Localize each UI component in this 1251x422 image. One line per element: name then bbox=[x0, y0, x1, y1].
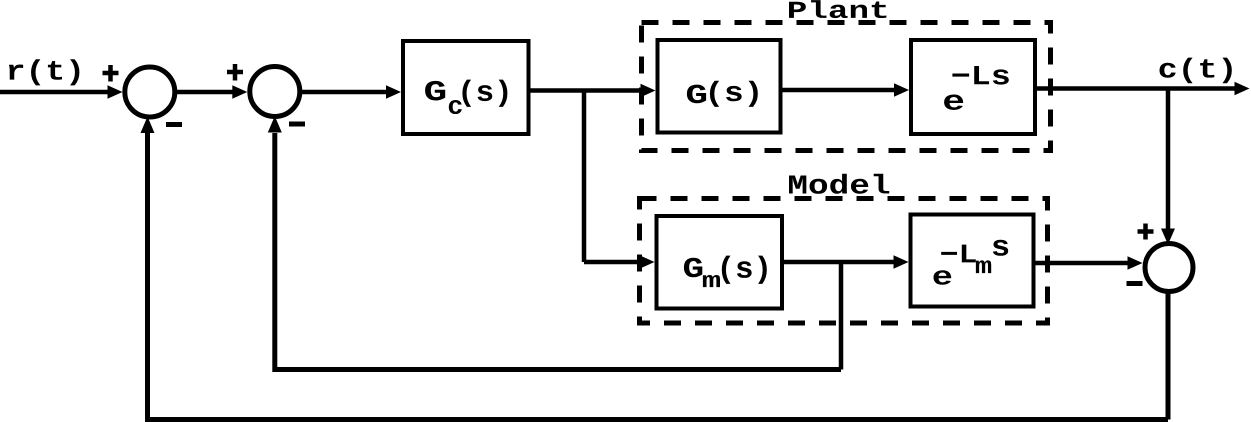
arrowhead into S1 bbox=[108, 85, 123, 99]
arrowhead into S3 from left bbox=[1128, 256, 1143, 270]
output label c(t) bbox=[1160, 58, 1232, 84]
plus sign at S3 bbox=[1138, 224, 1154, 240]
summing junction S3 bbox=[1145, 244, 1193, 292]
plus sign at S1 bbox=[103, 65, 119, 82]
minus sign at S1 bbox=[166, 122, 182, 127]
arrowhead into e-Ls bbox=[894, 83, 909, 97]
arrowhead into Gm bbox=[640, 255, 655, 269]
label e^-Lms exponent subscript m bbox=[976, 260, 991, 273]
arrowhead up into S1 from feedback bbox=[141, 117, 155, 134]
block Gc(s) bbox=[403, 41, 529, 134]
title Model bbox=[789, 174, 889, 194]
wire branch down from c(t) line to S3 bbox=[1166, 89, 1171, 229]
block e-Lms bbox=[911, 215, 1034, 307]
label e^-Lms exponent s bbox=[993, 240, 1008, 256]
dashed box Plant bbox=[642, 23, 1051, 151]
wire branch down from Gc output to model row bbox=[582, 91, 587, 263]
arrowhead into G(s) bbox=[641, 84, 656, 98]
minus sign at S2 bbox=[289, 122, 305, 127]
input label r(t) bbox=[9, 59, 80, 85]
wire input r(t) to S1 bbox=[0, 90, 110, 95]
arrowhead output at right edge bbox=[1235, 82, 1250, 96]
arrowhead into S2 bbox=[232, 85, 247, 99]
wire Gc to G(s) with branch node bbox=[531, 88, 643, 93]
label Gm(s) subscript m bbox=[703, 275, 720, 287]
wire S1 to S2 bbox=[177, 90, 234, 95]
wire branch to Gm bbox=[584, 260, 641, 265]
label e^-Lms exponent -L bbox=[941, 245, 976, 263]
label Gc(s) subscript c bbox=[449, 100, 462, 114]
label e^-Lms base e bbox=[934, 270, 952, 285]
label G(s) parens (s) bbox=[710, 81, 758, 107]
label e^-Ls base e bbox=[944, 95, 963, 110]
wire G(s) to e-Ls bbox=[783, 88, 897, 93]
label Gm(s) main G bbox=[684, 258, 702, 278]
minus sign at S3 bbox=[1127, 281, 1143, 286]
arrowhead up into S2 from feedback bbox=[268, 116, 282, 133]
summing junction S1 bbox=[125, 67, 175, 117]
label e^-Ls exponent -Ls bbox=[952, 66, 1008, 85]
label G(s) main G bbox=[687, 85, 706, 104]
label Gm(s) parens (s) bbox=[722, 256, 767, 284]
label Gc(s) parens (s) bbox=[462, 80, 507, 107]
dashed box Model bbox=[640, 199, 1048, 324]
block Gm(s) bbox=[657, 216, 783, 309]
title Plant bbox=[789, 0, 886, 18]
arrowhead into e-Lms bbox=[894, 255, 909, 269]
wire e-Lms to S3 bbox=[1036, 261, 1131, 266]
inner feedback wire from Gm output branch to S2 bbox=[275, 133, 841, 370]
wire branch down from Gm output bbox=[839, 262, 844, 370]
outer feedback wire bottom and left bbox=[148, 133, 1169, 420]
summing junction S2 bbox=[250, 67, 300, 117]
plus sign at S2 bbox=[227, 64, 243, 81]
wire S3 down to outer feedback bbox=[1166, 293, 1171, 420]
wire S2 to Gc block bbox=[302, 90, 388, 95]
wire output to c(t) bbox=[1037, 86, 1236, 91]
wire Gm to e-Lms with branch node bbox=[784, 260, 896, 265]
block e-Ls bbox=[911, 40, 1035, 134]
label Gc(s) main G bbox=[425, 81, 445, 101]
arrowhead down into S3 bbox=[1161, 229, 1175, 245]
arrowhead into Gc block bbox=[386, 85, 401, 99]
block G(s) bbox=[658, 40, 781, 133]
